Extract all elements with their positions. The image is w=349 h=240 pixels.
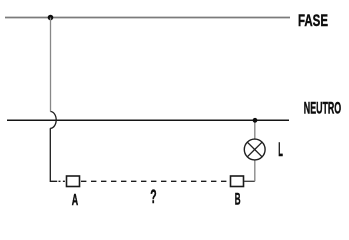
svg-text:FASE: FASE [298,11,328,30]
svg-text:A: A [72,192,79,209]
svg-text:NEUTRO: NEUTRO [304,100,342,118]
svg-text:?: ? [150,186,156,208]
svg-text:B: B [235,191,241,209]
svg-text:L: L [278,140,283,161]
